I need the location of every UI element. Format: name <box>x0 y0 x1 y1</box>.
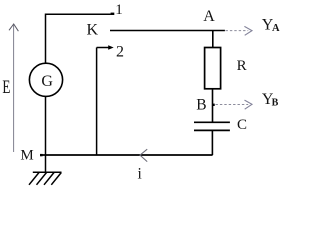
earth ground symbol <box>29 172 62 185</box>
svg-text:B: B <box>272 97 279 108</box>
wire: bus down to earth <box>45 155 47 172</box>
svg-text:K: K <box>87 22 99 39</box>
svg-text:i: i <box>138 165 143 182</box>
contact 1 dot <box>111 13 115 15</box>
svg-text:A: A <box>272 23 280 34</box>
wire: resistor down to node B and capacitor <box>212 89 214 123</box>
resistor R <box>205 48 221 89</box>
svg-text:A: A <box>203 8 215 25</box>
svg-text:E: E <box>2 77 10 98</box>
wire: G top up and right to contact 1 <box>46 14 111 63</box>
probe arrow YA dashed <box>226 30 249 32</box>
node B junction dot <box>212 104 214 106</box>
EMF arrow E shaft <box>13 25 15 153</box>
bus left end dot <box>40 154 43 156</box>
svg-text:C: C <box>237 117 247 133</box>
wire: contact 2 down to bottom bus <box>96 48 98 156</box>
wire: node A down to resistor <box>212 31 214 49</box>
generator G <box>29 63 62 96</box>
wire: capacitor down to bottom bus <box>211 130 213 155</box>
wire: G bottom down to bus <box>45 96 47 155</box>
svg-text:1: 1 <box>115 2 123 18</box>
svg-text:G: G <box>41 73 53 90</box>
capacitor C top plate <box>194 121 230 123</box>
svg-text:R: R <box>237 58 247 74</box>
svg-text:B: B <box>196 97 206 114</box>
contact 2 arm with arrow <box>97 47 110 49</box>
probe arrow YB dashed <box>216 104 249 106</box>
capacitor C bottom plate <box>194 129 230 131</box>
svg-text:2: 2 <box>116 44 124 61</box>
svg-text:M: M <box>20 147 33 163</box>
EMF arrow E head <box>9 24 18 31</box>
bottom bus wire <box>40 154 212 156</box>
switch K arm wire <box>110 30 225 32</box>
current arrow i chevron <box>140 149 147 161</box>
